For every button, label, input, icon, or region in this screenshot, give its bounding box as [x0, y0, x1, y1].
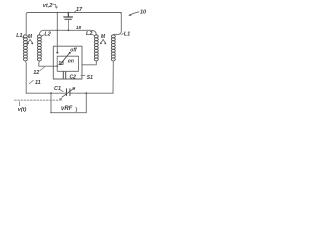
- capacitor C1 variable arrow: [62, 88, 75, 98]
- wire leader S1: [81, 74, 85, 76]
- wire L1 left bottom: [24, 61, 27, 93]
- wire mid line 18: [39, 30, 96, 35]
- svg-text:13: 13: [58, 61, 64, 67]
- switch box inner: [57, 56, 78, 71]
- svg-text:L2: L2: [86, 31, 92, 37]
- node wire 12 terminal: [56, 65, 58, 67]
- svg-text:M: M: [101, 34, 106, 40]
- node switch feed contact: [56, 52, 58, 54]
- wire leader v(t): [18, 102, 20, 106]
- wire leader L2 right: [92, 34, 94, 35]
- wire leader L1 left: [21, 36, 24, 38]
- wire L2 left bottom to box: [39, 61, 57, 66]
- wire leader 17: [74, 11, 76, 13]
- wire bottom bus right: [70, 92, 113, 94]
- wire leader C1: [60, 90, 64, 92]
- node junction top bus vertical: [57, 12, 59, 14]
- wire vRF tick: [76, 107, 77, 112]
- capacitor C2 plates: [63, 72, 65, 78]
- wire vertical feed to switch box: [56, 13, 58, 47]
- wire leader vt1: [52, 4, 57, 8]
- svg-text:12: 12: [33, 70, 39, 76]
- node junction mid line cap: [68, 29, 70, 31]
- svg-text:vt,2: vt,2: [43, 3, 52, 9]
- wire L1 right bottom to bus: [112, 61, 114, 93]
- wire switch feed inside box: [56, 46, 58, 52]
- svg-text:11: 11: [35, 80, 41, 86]
- wire leader L1 right: [122, 33, 124, 35]
- svg-text:v(t): v(t): [18, 107, 27, 113]
- svg-text:10: 10: [140, 9, 146, 15]
- wire capacitor 17 lower stub: [67, 20, 69, 30]
- svg-text:off: off: [70, 47, 78, 53]
- wire dashed arrowhead: [59, 99, 61, 101]
- inductor L2 right coil: [94, 35, 98, 61]
- wire vRF loop: [51, 93, 86, 113]
- wire bottom bus left: [26, 92, 66, 94]
- wire M arrows right: [100, 39, 105, 44]
- node vRF loop corner: [50, 112, 52, 114]
- inductor L2 left coil: [37, 35, 41, 61]
- wire leader L2 left: [42, 35, 45, 36]
- svg-text:L1: L1: [124, 31, 130, 37]
- node junction mid vertical: [57, 30, 59, 32]
- switch box S1 outer: [53, 46, 82, 79]
- node vRF right junction: [85, 92, 87, 94]
- svg-text:18: 18: [76, 25, 82, 30]
- inductor L1 left coil: [23, 35, 27, 61]
- svg-text:L2: L2: [44, 32, 50, 38]
- node junction cap top bus: [68, 12, 70, 14]
- svg-text:C1: C1: [54, 86, 61, 92]
- svg-text:M: M: [28, 34, 33, 40]
- capacitor 17 top plate: [64, 13, 73, 18]
- switch blade S1: [60, 53, 69, 64]
- inductor L1 right coil: [111, 35, 115, 61]
- wire dashed v(t) line: [15, 99, 60, 101]
- wire box to right transformer: [82, 61, 96, 65]
- svg-text:S1: S1: [87, 75, 93, 81]
- capacitor 17 bottom plate: [65, 18, 72, 20]
- wire L1 right top to bus: [113, 13, 121, 36]
- wire M arrows left: [27, 39, 32, 44]
- wire top bus 17: [26, 13, 121, 35]
- svg-text:C2: C2: [70, 75, 77, 81]
- node switch off contact: [69, 52, 71, 54]
- wire leader 12: [40, 67, 45, 71]
- node vRF left junction: [50, 92, 52, 94]
- wire leader 10: [129, 12, 139, 16]
- wire leader 11: [29, 80, 33, 84]
- node switch blade pivot: [59, 63, 61, 65]
- svg-text:on: on: [68, 59, 74, 65]
- svg-text:L1: L1: [16, 33, 22, 39]
- svg-text:vRF: vRF: [61, 106, 73, 112]
- capacitor C1 plates: [67, 89, 70, 96]
- svg-text:17: 17: [76, 7, 83, 13]
